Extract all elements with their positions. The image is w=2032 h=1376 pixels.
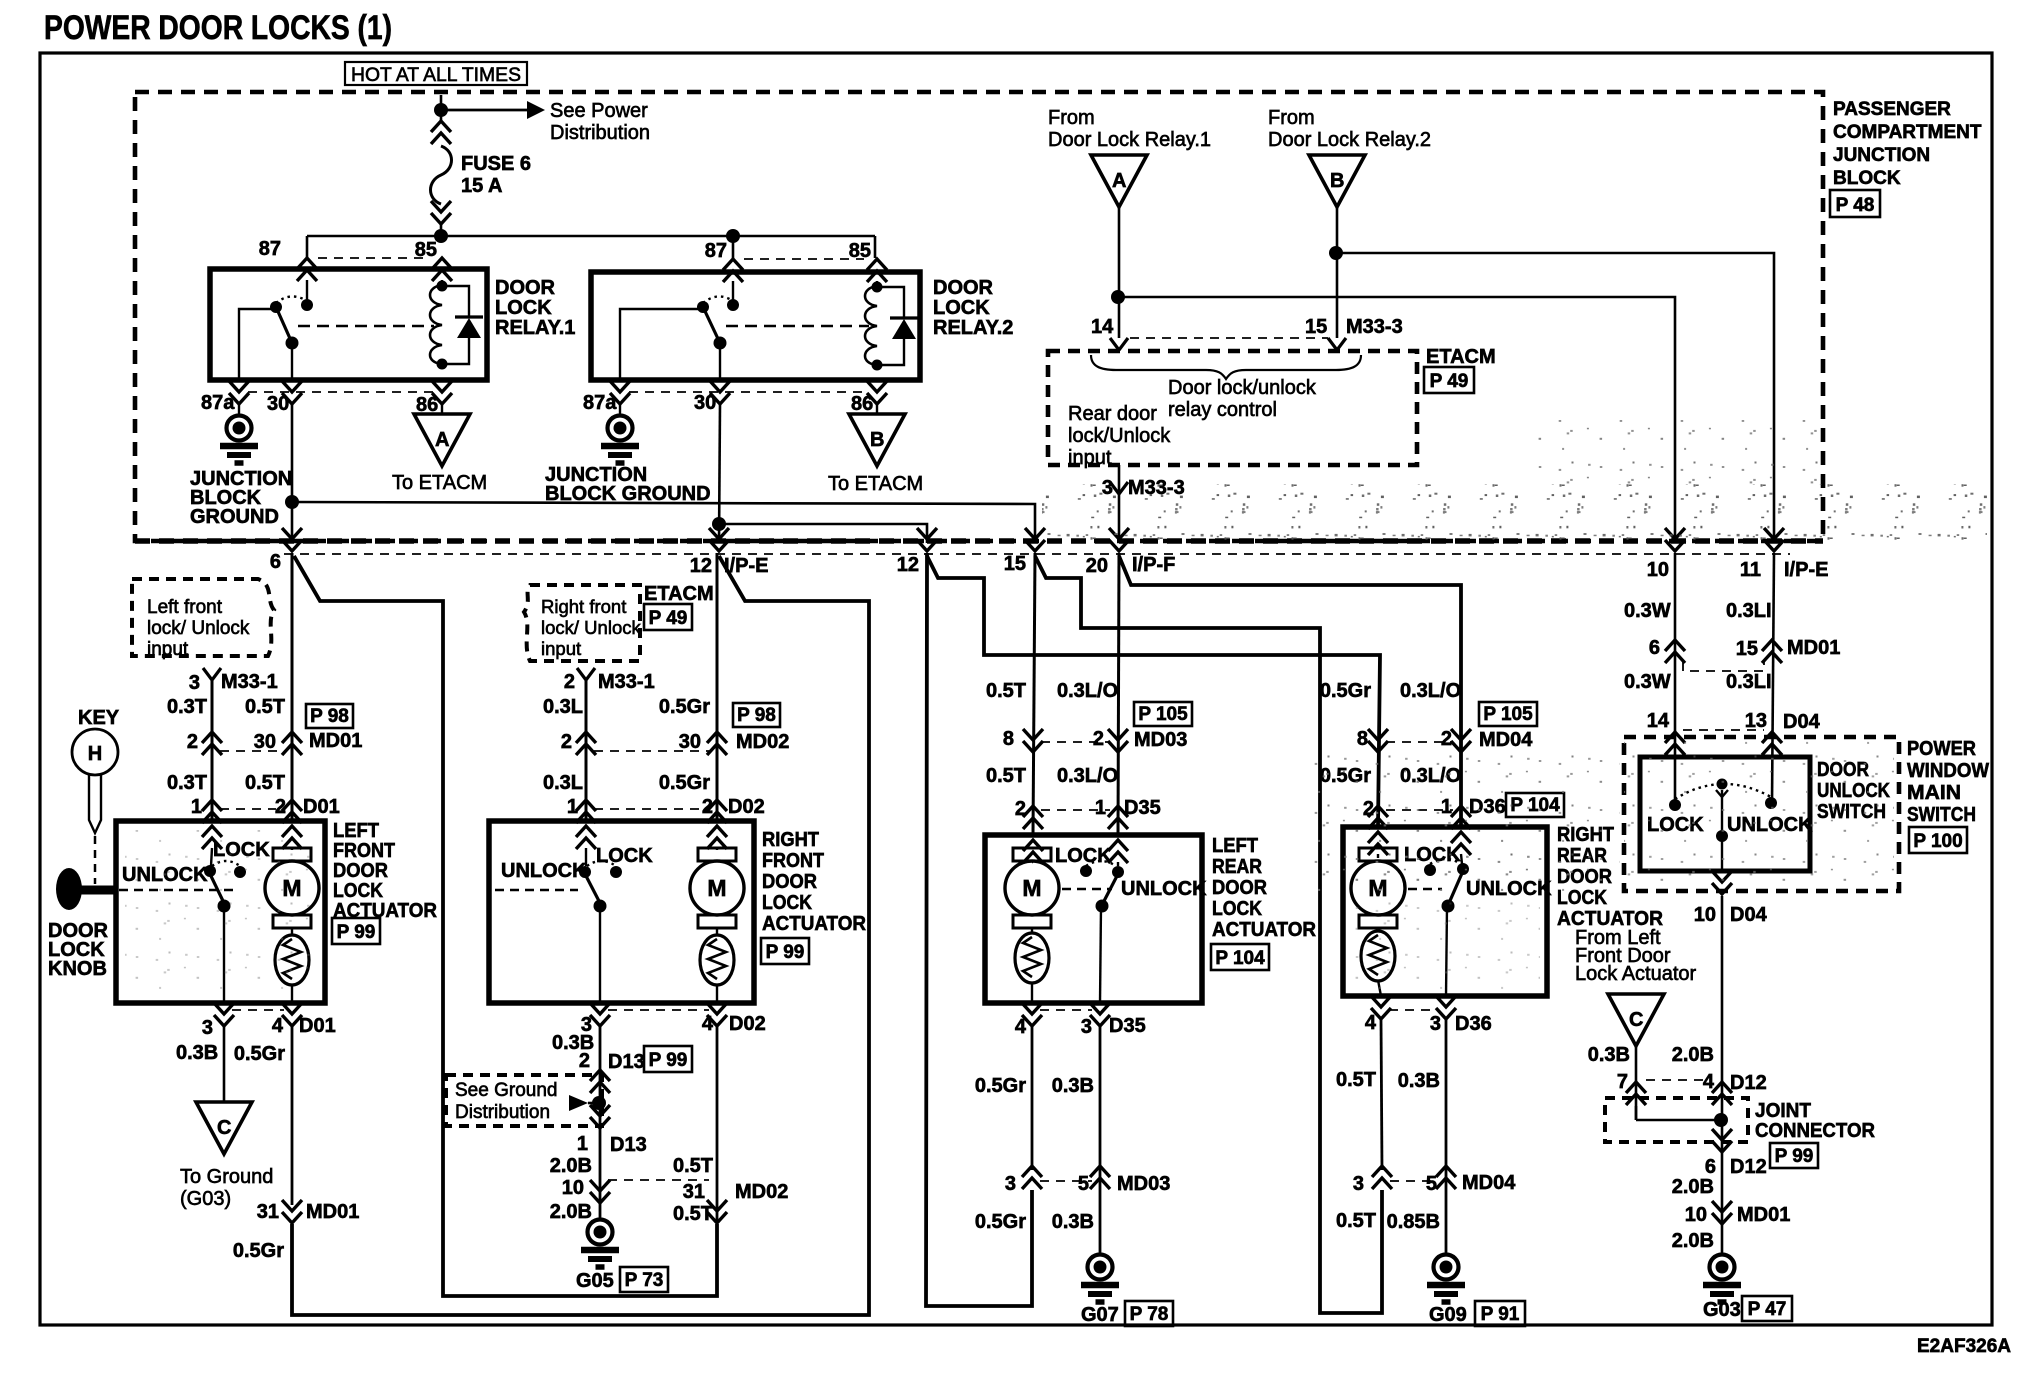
relay2 pin dashed line 87-85	[744, 258, 864, 260]
pin label 12 I/P-E	[690, 555, 769, 577]
connector M33-3 pin 3 Y	[1110, 482, 1128, 494]
svg-text:JOINT: JOINT	[1755, 1100, 1811, 1122]
svg-text:D01: D01	[303, 796, 340, 818]
left-front bottom dashed line	[232, 1009, 284, 1011]
svg-text:5: 5	[1426, 1173, 1437, 1195]
connector MD01 6/15 chevrons pin15	[1762, 640, 1782, 663]
svg-text:1: 1	[1095, 797, 1106, 819]
wire: pin3 down to triangle C	[223, 1027, 226, 1102]
svg-text:0.5T: 0.5T	[245, 772, 285, 794]
svg-text:0.5Gr: 0.5Gr	[234, 1043, 285, 1065]
svg-text:P 99: P 99	[766, 942, 805, 963]
svg-text:RELAY.1: RELAY.1	[495, 317, 575, 339]
page ref P 47	[1742, 1296, 1792, 1321]
connector MD04 3/5 labels	[1353, 1172, 1516, 1195]
svg-text:POWER DOOR LOCKS (1): POWER DOOR LOCKS (1)	[44, 9, 392, 47]
relay2 diode	[877, 287, 918, 365]
connector MD03 pin2 chevrons	[1108, 729, 1128, 752]
node: junction feeding second I/P-E 12	[712, 517, 726, 531]
svg-text:0.3W: 0.3W	[1624, 600, 1671, 622]
right-front bottom dashed line	[608, 1009, 709, 1011]
connector MD02 row pin30 chevrons	[707, 732, 727, 755]
right-front UNLOCK contact dot	[579, 866, 591, 878]
label: DOOR LOCK RELAY.1	[495, 277, 575, 339]
scan noise band (junction block lower area)	[1042, 484, 1987, 542]
connector MD04 pin3 chevrons (return)	[1372, 1166, 1392, 1189]
page ref P 49 (ETACM)	[1424, 367, 1474, 393]
connector D04 dashed line	[1683, 729, 1764, 731]
svg-text:D13: D13	[608, 1051, 645, 1073]
svg-text:H: H	[88, 743, 102, 765]
svg-text:DOOR: DOOR	[762, 871, 818, 893]
svg-text:P 98: P 98	[737, 705, 776, 726]
dashed line at MD02 31	[608, 1179, 709, 1181]
connector triangle C to ground G03	[196, 1102, 252, 1154]
connector triangle C (from left front door lock actuator)	[1608, 994, 1664, 1046]
svg-text:Distribution: Distribution	[550, 122, 650, 144]
connector D12 dashed line	[1646, 1079, 1712, 1081]
connector MD02 labels 2 / 30 / MD02	[561, 731, 789, 753]
ground G03	[1703, 1255, 1741, 1303]
svg-text:87a: 87a	[583, 392, 617, 414]
svg-text:See Ground: See Ground	[455, 1080, 557, 1101]
relay2 bottom pins dashed line	[629, 391, 868, 393]
connector MD03 pin5 chevrons (G07 wire)	[1090, 1166, 1110, 1189]
left-front bottom labels 3 / 4 / D01	[202, 1015, 336, 1039]
door unlock switch UNLOCK contact dot	[1765, 797, 1777, 809]
page ref P 104 (D36)	[1506, 793, 1564, 817]
svg-text:B: B	[870, 429, 884, 451]
connector MD02 pin 31 chevrons	[707, 1200, 727, 1223]
thermal element (right front actuator)	[700, 935, 734, 985]
door unlock switch lower contact dot	[1716, 830, 1728, 842]
svg-text:0.3B: 0.3B	[1052, 1211, 1094, 1233]
svg-text:4: 4	[272, 1015, 284, 1037]
connector D04 pin 10 labels	[1694, 904, 1768, 926]
page ref P 105 (MD03)	[1134, 702, 1192, 726]
connector triangle B (from relay2)	[1309, 155, 1365, 207]
svg-text:MD03: MD03	[1117, 1173, 1170, 1195]
right-rear bottom pin4 chevrons	[1371, 996, 1391, 1019]
right-rear pivot contact dot	[1457, 863, 1469, 875]
connector M33-1 pin 3 label	[189, 671, 278, 694]
node: joint connector D13 junction dot	[592, 1096, 606, 1110]
svg-text:0.3L: 0.3L	[543, 696, 583, 718]
wire: relay1 pin30 down to junction block pin 6	[291, 404, 294, 543]
node: joint connector junction dot	[1714, 1113, 1728, 1127]
right-front pin2 entry chevrons	[707, 826, 727, 849]
svg-text:0.3LI: 0.3LI	[1726, 671, 1772, 693]
svg-text:4: 4	[702, 1013, 714, 1035]
svg-text:lock/Unlock: lock/Unlock	[1068, 425, 1171, 447]
svg-text:LOCK: LOCK	[933, 297, 990, 319]
connector D13 pin1 chevrons (below)	[590, 1105, 610, 1128]
left-front switch wire from pin 1	[211, 848, 212, 866]
wire: triangle B down to M33-3 pin 15	[1336, 207, 1339, 338]
relay1 bottom pin chevrons 30	[282, 381, 302, 404]
label: RIGHT REAR DOOR LOCK ACTUATOR	[1557, 824, 1664, 930]
label: From Left Front Door Lock Actuator	[1575, 927, 1697, 985]
connector D04 pin13 chevrons	[1762, 732, 1782, 755]
svg-text:WINDOW: WINDOW	[1907, 760, 1989, 782]
svg-text:FRONT: FRONT	[762, 850, 824, 872]
svg-text:ETACM: ETACM	[644, 583, 714, 605]
svg-text:3: 3	[1430, 1013, 1441, 1035]
svg-text:DOOR: DOOR	[495, 277, 556, 299]
svg-text:BLOCK GROUND: BLOCK GROUND	[545, 483, 711, 505]
wire: relay2 pin30 down to connector I/P-E 12	[719, 404, 720, 543]
svg-text:A: A	[1112, 170, 1126, 192]
svg-text:LOCK: LOCK	[495, 297, 552, 319]
svg-text:0.3W: 0.3W	[1624, 671, 1671, 693]
connector D01 labels 1 / 2 / D01	[191, 796, 340, 818]
connector chevrons at junction block boundary pin I/P-E 10	[1665, 528, 1685, 551]
svg-text:0.5Gr: 0.5Gr	[659, 696, 710, 718]
svg-text:COMPARTMENT: COMPARTMENT	[1833, 122, 1982, 143]
svg-text:0.5Gr: 0.5Gr	[975, 1075, 1026, 1097]
svg-text:2.0B: 2.0B	[1672, 1176, 1714, 1198]
svg-text:0.3L: 0.3L	[543, 772, 583, 794]
connector chevrons below fuse	[431, 201, 451, 224]
connector chevrons at junction block boundary pin I/P-E 12	[709, 528, 729, 551]
wire: I/P-E 11 down into door unlock switch (0.3LI)	[1772, 553, 1774, 803]
right-rear lever end dot	[1442, 900, 1455, 913]
relay2 pin 87 connector chevrons	[723, 259, 743, 282]
left-rear LOCK contact dot	[1080, 865, 1092, 877]
thermal element (left front actuator)	[275, 935, 309, 985]
connector D13 pin 1 labels	[577, 1133, 647, 1156]
thick dashed boundary segment (junction block bottom edge)	[135, 538, 1823, 544]
svg-text:I/P-E: I/P-E	[1784, 559, 1828, 581]
svg-text:LOCK: LOCK	[762, 892, 812, 914]
svg-text:M: M	[1022, 875, 1041, 901]
page ref P 48	[1830, 190, 1880, 217]
svg-text:31: 31	[683, 1181, 705, 1203]
door unlock switch common wire	[1721, 790, 1723, 871]
wire: D04 pin10 down to joint connector (2.0B)	[1721, 896, 1724, 1120]
svg-text:0.3LI: 0.3LI	[1726, 600, 1772, 622]
connector D35 dashed line	[1041, 809, 1110, 811]
svg-text:ACTUATOR: ACTUATOR	[1212, 919, 1317, 941]
left-front actuator pin1 entry chevrons	[202, 826, 222, 849]
connector MD03 dashed line	[1041, 741, 1110, 743]
svg-text:3: 3	[189, 672, 200, 694]
relay2 coil	[865, 286, 877, 365]
svg-text:G05: G05	[576, 1270, 614, 1292]
svg-text:0.85B: 0.85B	[1387, 1211, 1440, 1233]
svg-text:SWITCH: SWITCH	[1907, 804, 1976, 826]
svg-text:2.0B: 2.0B	[550, 1201, 592, 1223]
dashed line at MD04 3/5	[1390, 1180, 1438, 1182]
label: LEFT FRONT DOOR LOCK ACTUATOR	[333, 820, 438, 922]
ground G09	[1427, 1255, 1465, 1303]
wire: M33-1 pin2 to D02 pin1 (0.3L)	[585, 680, 588, 821]
svg-text:DOOR: DOOR	[1212, 877, 1268, 899]
svg-text:MD04: MD04	[1479, 729, 1533, 751]
right-front bottom pin4 chevrons	[707, 1003, 727, 1026]
left-front LOCK contact dot	[234, 866, 246, 878]
page ref P 99 (joint connector right)	[1770, 1143, 1818, 1168]
svg-text:P 73: P 73	[625, 1270, 664, 1291]
thin connector dashed line below junction block boundary	[284, 553, 1790, 555]
svg-text:To ETACM: To ETACM	[828, 473, 923, 495]
svg-text:10: 10	[1694, 904, 1716, 926]
connector chevrons above fuse	[431, 121, 451, 144]
node: junction on B wire	[1329, 246, 1343, 260]
svg-text:P 99: P 99	[649, 1050, 688, 1071]
connector chevrons at junction block boundary pin I/P-E 12b	[917, 528, 937, 551]
connector M33-1 pin 2 Y (right front)	[577, 668, 595, 680]
svg-text:D36: D36	[1455, 1013, 1492, 1035]
svg-text:D13: D13	[610, 1134, 647, 1156]
svg-text:2: 2	[561, 731, 572, 753]
wire: M33-1 pin3 to D01 pin1 (0.3T)	[211, 680, 214, 821]
svg-text:POWER: POWER	[1907, 738, 1977, 760]
svg-text:30: 30	[694, 392, 716, 414]
wire: A signal to I/P-E pin 10	[1118, 297, 1675, 543]
svg-text:P 47: P 47	[1748, 1299, 1787, 1320]
svg-text:2: 2	[1093, 728, 1104, 750]
right-front wire motor to thermal	[716, 928, 718, 936]
pin label 20 I/P-F	[1086, 554, 1176, 577]
label: JUNCTION BLOCK GROUND (relay1)	[190, 468, 292, 528]
svg-text:11: 11	[1740, 559, 1761, 581]
svg-text:M: M	[707, 875, 726, 901]
svg-text:MD01: MD01	[306, 1201, 359, 1223]
svg-text:E2AF326A: E2AF326A	[1917, 1336, 2011, 1357]
connector M33-3 dashed line	[1130, 337, 1328, 339]
svg-text:LOCK: LOCK	[596, 845, 653, 867]
right-front bottom labels 3 / 4 / D02	[581, 1013, 766, 1036]
ground: junction block ground under relay1 pin 87a	[238, 404, 240, 416]
svg-text:10: 10	[1685, 1204, 1707, 1226]
left-rear pivot contact dot	[1112, 866, 1124, 878]
connector MD01 31 labels	[257, 1201, 360, 1223]
page ref P 105 (MD04)	[1479, 702, 1537, 726]
svg-text:P 78: P 78	[1130, 1304, 1169, 1325]
svg-text:P 91: P 91	[1481, 1304, 1520, 1325]
page ref P 99 (left front actuator)	[332, 918, 380, 944]
connector MD03 pin8 chevrons	[1023, 729, 1043, 752]
connector chevrons at junction block boundary pin I/P-F 20	[1109, 528, 1129, 551]
relay1 pin dashed line 87-85	[318, 257, 430, 259]
connector D36 pin2 chevrons	[1368, 806, 1388, 829]
left-rear pin2 entry chevrons	[1023, 840, 1043, 863]
page ref P 99 (D13)	[644, 1046, 692, 1072]
ground G05	[581, 1220, 619, 1268]
page ref P 100	[1909, 827, 1967, 853]
dashed line at MD03 3/5	[1040, 1180, 1092, 1182]
svg-text:0.3B: 0.3B	[1398, 1070, 1440, 1092]
svg-text:31: 31	[257, 1201, 279, 1223]
svg-text:Door Lock Relay.1: Door Lock Relay.1	[1048, 129, 1211, 151]
left-rear bottom dashed line	[1040, 1009, 1092, 1011]
label: See Ground Distribution	[455, 1080, 557, 1123]
connector D01 dashed line	[220, 808, 276, 810]
svg-text:Rear door: Rear door	[1068, 403, 1157, 425]
left-front UNLOCK contact dot	[204, 865, 216, 877]
svg-text:UNLOCK: UNLOCK	[501, 860, 587, 882]
svg-text:0.3B: 0.3B	[1052, 1075, 1094, 1097]
relay1 contact: pin87 stub and contact dot	[306, 280, 308, 303]
relay1 bottom pin chevrons 86	[432, 381, 452, 404]
relay2 wire lever to pin 30	[719, 343, 721, 380]
right-front bottom pin3 chevrons	[590, 1003, 610, 1026]
motor M (right rear actuator)	[1351, 848, 1405, 928]
label: From Door Lock Relay.1	[1048, 107, 1211, 151]
left-rear wire thermal to pin 4	[1031, 982, 1033, 1003]
connector D01 pin2 chevrons	[282, 800, 302, 823]
connector MD01 6/15 labels	[1649, 637, 1840, 660]
wire: top rail feeding relay coils/contacts	[307, 235, 875, 238]
connector D01 pin1 chevrons	[202, 800, 222, 823]
wire: joint connector to G03 ground (2.0B)	[1721, 1120, 1724, 1256]
svg-text:KNOB: KNOB	[48, 958, 107, 980]
svg-text:G07: G07	[1081, 1304, 1119, 1326]
svg-text:LEFT: LEFT	[1212, 835, 1258, 857]
wire: second I/P-E 12 branch to right-rear MD04 8	[927, 556, 1380, 827]
right-front wire thermal to pin 4	[716, 984, 718, 1003]
connector MD03 3/5 labels	[1005, 1173, 1170, 1195]
mechanical dashed line (right rear)	[1408, 888, 1442, 891]
svg-text:1: 1	[577, 1133, 588, 1155]
svg-text:Lock Actuator: Lock Actuator	[1575, 963, 1697, 985]
ground G07	[1081, 1255, 1119, 1303]
dashed mechanical link key to knob	[94, 836, 97, 884]
motor M (left front actuator)	[265, 848, 319, 928]
svg-text:3: 3	[202, 1017, 213, 1039]
svg-text:15 A: 15 A	[461, 175, 503, 197]
label: PASSENGER COMPARTMENT JUNCTION BLOCK	[1833, 99, 1982, 189]
svg-text:DOOR: DOOR	[933, 277, 994, 299]
svg-text:2: 2	[579, 1050, 590, 1072]
actuator: LEFT REAR DOOR LOCK ACTUATOR box	[985, 835, 1202, 1003]
relay1 pin85 wire into coil	[441, 280, 443, 286]
label: To Ground (G03)	[180, 1166, 273, 1210]
svg-text:2: 2	[564, 671, 575, 693]
wire: pin 6 branch to right-front ground return (down left side)	[294, 556, 717, 1296]
switch output chevrons through dashed box	[1712, 871, 1732, 894]
svg-text:HOT AT ALL TIMES: HOT AT ALL TIMES	[351, 64, 521, 86]
svg-text:2: 2	[1441, 728, 1452, 750]
key symbol with H	[72, 729, 118, 833]
svg-text:REAR: REAR	[1212, 856, 1262, 878]
joint connector output chevrons	[1712, 1129, 1732, 1152]
svg-text:0.5Gr: 0.5Gr	[233, 1240, 284, 1262]
left-front motor wire from pin 2	[291, 848, 293, 850]
connector MD04 pin2 chevrons	[1451, 729, 1471, 752]
left-rear motor wire from pin 2	[1032, 861, 1033, 863]
svg-text:0.3B: 0.3B	[176, 1042, 218, 1064]
connector MD01 pin 31 chevrons	[282, 1200, 302, 1223]
svg-text:PASSENGER: PASSENGER	[1833, 99, 1951, 120]
svg-text:From: From	[1048, 107, 1095, 129]
door lock knob symbol	[56, 868, 118, 910]
label: LEFT REAR DOOR LOCK ACTUATOR	[1212, 835, 1317, 941]
svg-text:12: 12	[897, 554, 919, 576]
svg-text:From: From	[1268, 107, 1315, 129]
connector D36 dashed line	[1386, 809, 1453, 811]
wire: I/P-F 20 straight down to MD03 2 (0.3L/O)	[1118, 553, 1119, 835]
door unlock switch LOCK contact dot	[1669, 799, 1681, 811]
svg-text:LEFT: LEFT	[333, 820, 379, 842]
wire: I/P-E 12 straight down to MD02 30 (0.5Gr)	[716, 553, 719, 821]
svg-text:D02: D02	[729, 1013, 766, 1035]
relay2 contact: pin87 stub and contact dot	[732, 281, 734, 303]
motor M (left rear actuator)	[1005, 848, 1059, 928]
svg-text:MD04: MD04	[1462, 1172, 1516, 1194]
svg-text:0.3B: 0.3B	[1588, 1044, 1630, 1066]
svg-text:LOCK: LOCK	[333, 880, 383, 902]
svg-text:15: 15	[1736, 638, 1758, 660]
scan noise band (right, above boundary)	[1530, 420, 1820, 486]
connector MD01 labels 2 / 30 / MD01	[187, 730, 362, 753]
relay1 switch lever	[276, 307, 292, 343]
svg-text:0.5T: 0.5T	[1336, 1210, 1376, 1232]
svg-text:P 48: P 48	[1836, 195, 1875, 216]
relay2 switch lever	[703, 307, 720, 343]
svg-text:input: input	[541, 638, 581, 659]
right-rear wire motor to thermal	[1377, 928, 1379, 932]
svg-text:2.0B: 2.0B	[1672, 1044, 1714, 1066]
relay2 pin 85 connector chevrons	[867, 259, 887, 282]
right-front motor wire from pin 2	[716, 848, 718, 850]
svg-text:D04: D04	[1783, 711, 1821, 733]
svg-text:Distribution: Distribution	[455, 1102, 550, 1123]
right-rear bottom labels 4 / 3 / D36	[1365, 1012, 1492, 1035]
right-front LOCK contact dot	[610, 866, 622, 878]
page ref P 98 (MD02)	[733, 703, 780, 727]
right-rear LOCK contact dot	[1424, 864, 1436, 876]
connector D04 pin14 chevrons	[1665, 732, 1685, 755]
svg-text:P 105: P 105	[1138, 704, 1188, 725]
connector D35 labels 2 / 1 / D35	[1015, 797, 1161, 820]
relay1 pin 87 connector chevrons	[297, 258, 317, 281]
right-rear motor wire from pin 2	[1377, 854, 1379, 858]
actuator: RIGHT FRONT DOOR LOCK ACTUATOR box	[489, 821, 754, 1003]
svg-text:Right front: Right front	[541, 596, 626, 617]
connector D35 pin1 chevrons	[1108, 806, 1128, 829]
svg-text:D01: D01	[299, 1015, 336, 1037]
see ground distribution arrow	[569, 1095, 588, 1111]
page ref P 49 (right front input)	[644, 604, 692, 630]
svg-text:2.0B: 2.0B	[550, 1155, 592, 1177]
connector D13 pin2 chevrons	[590, 1070, 610, 1093]
node: fuse output junction at top rail	[434, 229, 448, 243]
page ref P 99 (right front actuator)	[761, 938, 809, 964]
power window main switch dashed box	[1624, 737, 1899, 891]
svg-text:MD02: MD02	[735, 1181, 788, 1203]
svg-text:BLOCK: BLOCK	[1833, 168, 1901, 189]
label: DOOR UNLOCK SWITCH	[1817, 759, 1890, 823]
left-rear lever end dot	[1096, 900, 1109, 913]
wire: triangle A down to M33-3 pin 14	[1118, 207, 1121, 338]
page ref P 73	[620, 1267, 668, 1292]
connector MD02 31 labels	[683, 1181, 789, 1203]
svg-text:ETACM: ETACM	[1426, 346, 1496, 368]
svg-text:87a: 87a	[201, 392, 235, 414]
svg-text:LOCK: LOCK	[1055, 845, 1112, 867]
right-front switch dotted arc	[587, 861, 616, 866]
wire: ETACM pin 3 down to I/P-F 20	[1118, 465, 1121, 543]
svg-text:RIGHT: RIGHT	[762, 829, 819, 851]
svg-text:Door Lock Relay.2: Door Lock Relay.2	[1268, 129, 1431, 151]
connector triangle A (from relay1)	[1091, 155, 1147, 207]
left-front bottom pin 4 chevrons	[282, 1003, 302, 1026]
svg-text:P 99: P 99	[337, 922, 376, 943]
right-rear switch dotted arc	[1430, 859, 1461, 864]
wire: drop to relay1 pin 87	[306, 236, 309, 258]
